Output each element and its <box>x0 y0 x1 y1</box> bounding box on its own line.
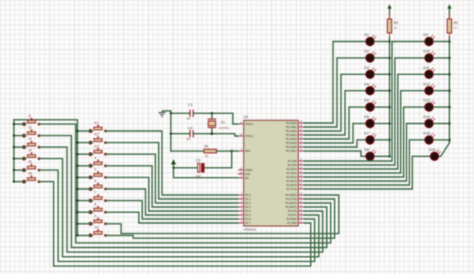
LED D13 <box>404 99 436 112</box>
wire D6 cathode <box>374 123 389 125</box>
LED D4 <box>345 82 376 95</box>
wire D15 cathode <box>433 139 449 141</box>
svg-text:15: 15 <box>28 160 32 164</box>
svg-text:PSEN: PSEN <box>245 168 252 172</box>
crystal X1 <box>208 113 230 133</box>
wire bus to button K7 <box>76 199 92 201</box>
push button 16 <box>22 172 40 184</box>
wire D12 cathode <box>433 90 449 92</box>
wire P0.3 to D4 <box>304 91 345 135</box>
LED D7 <box>357 132 376 145</box>
LED D10 <box>395 50 435 63</box>
wire bus to button 14 <box>13 157 26 159</box>
LED D6 <box>353 115 376 128</box>
svg-text:K2: K2 <box>95 133 99 137</box>
LED D14 <box>407 115 436 128</box>
capacitor C1 30p <box>186 103 193 121</box>
svg-text:D14: D14 <box>423 115 430 119</box>
svg-text:K1: K1 <box>95 121 99 125</box>
wire C2 left <box>170 133 190 135</box>
svg-text:13: 13 <box>28 137 32 141</box>
wire VCC to EA <box>174 168 239 178</box>
svg-text:30p: 30p <box>186 118 191 121</box>
push button 13 <box>22 137 40 149</box>
svg-text:8: 8 <box>95 202 97 206</box>
wire P2.6 to D15 <box>304 140 409 185</box>
wire button K10 to P3.1 <box>106 199 335 238</box>
wire bus top link <box>14 120 78 131</box>
wire bus to button 12 <box>13 134 26 136</box>
wire button 11 to P3.5 <box>39 124 331 243</box>
wire button K4 to P1.3 <box>106 166 239 207</box>
svg-text:P2.0/A8: P2.0/A8 <box>288 159 298 163</box>
wire left LED bus <box>388 40 391 157</box>
wire D11 cathode <box>433 73 449 75</box>
svg-text:P3.2/INT0: P3.2/INT0 <box>285 201 297 205</box>
wire button 14 to P3.2 <box>39 159 319 257</box>
wire bus to button 15 <box>13 169 26 171</box>
push button K5 <box>89 168 107 180</box>
svg-text:C2: C2 <box>188 127 193 131</box>
wire D5 cathode <box>374 106 389 108</box>
svg-text:D16: D16 <box>429 148 436 152</box>
push button K3 <box>89 144 107 156</box>
svg-text:P2.3/A11: P2.3/A11 <box>287 171 298 175</box>
wire right button bus <box>76 131 78 235</box>
svg-text:P2.2/A10: P2.2/A10 <box>286 167 297 171</box>
wire C1 left <box>170 112 190 114</box>
svg-text:D4: D4 <box>364 82 369 86</box>
svg-text:D3: D3 <box>364 66 369 70</box>
wire ground bus <box>170 111 172 151</box>
wire D1 cathode <box>374 41 389 43</box>
push button K7 <box>89 191 107 203</box>
wire bus to button 11 <box>13 123 26 125</box>
svg-text:R1: R1 <box>204 145 209 149</box>
svg-text:P1.2: P1.2 <box>245 201 251 205</box>
wire bus to button K5 <box>76 176 92 178</box>
svg-text:P1.7: P1.7 <box>245 221 251 225</box>
wire RST node down to C3 <box>204 151 232 168</box>
LED D3 <box>341 66 376 79</box>
wire P2.4 to D13 <box>304 107 403 177</box>
push button K6 <box>89 179 107 191</box>
svg-text:D7: D7 <box>364 132 369 136</box>
svg-text:D1: D1 <box>364 33 369 37</box>
wire bus to button K2 <box>76 141 92 143</box>
wire button K5 to P1.4 <box>106 177 239 211</box>
power VCC arrow (right LED column) <box>448 5 452 20</box>
wire R1 to RST <box>217 150 239 153</box>
svg-text:P0.6/AD6: P0.6/AD6 <box>286 145 297 149</box>
svg-text:D8: D8 <box>364 148 369 152</box>
svg-text:D13: D13 <box>423 99 430 103</box>
svg-text:U1: U1 <box>243 114 249 119</box>
svg-text:D6: D6 <box>364 115 369 119</box>
wire P2.1 to D10 <box>304 58 395 165</box>
svg-text:P0.7/AD7: P0.7/AD7 <box>286 149 297 153</box>
wire P0.2 to D3 <box>304 74 341 131</box>
label AT89C51 <box>243 228 256 232</box>
wire D16 cathode <box>439 155 441 157</box>
wire bus to button K1 <box>76 130 92 132</box>
svg-text:P2.7/A15: P2.7/A15 <box>286 187 297 191</box>
svg-text:7: 7 <box>95 191 97 195</box>
wire bus to button K10 <box>76 234 92 236</box>
wire D4 cathode <box>374 90 389 92</box>
wire P0.0 to D1 <box>304 42 333 124</box>
svg-text:9: 9 <box>95 214 97 218</box>
svg-text:5: 5 <box>95 168 97 172</box>
wire left button bus <box>13 120 15 182</box>
svg-text:14: 14 <box>28 149 32 153</box>
wire bus to button K8 <box>76 211 92 213</box>
wire D10 cathode <box>433 57 449 59</box>
wire P2.5 to D14 <box>304 124 406 182</box>
svg-text:P0.5/AD5: P0.5/AD5 <box>286 141 297 145</box>
svg-text:D10: D10 <box>423 50 430 54</box>
LED D9 <box>392 33 435 46</box>
wire diagonal to D16 <box>441 143 450 156</box>
IC U1 AT89C51 microcontroller <box>238 120 304 226</box>
svg-text:D11: D11 <box>423 66 430 70</box>
svg-text:P0.4/AD4: P0.4/AD4 <box>286 137 297 141</box>
label U1 <box>243 114 249 119</box>
svg-text:XTAL2: XTAL2 <box>245 134 254 138</box>
wire R1 left <box>171 150 204 152</box>
wire bus to button K6 <box>76 188 92 190</box>
svg-text:K3: K3 <box>95 144 99 148</box>
LED D1 <box>333 33 376 46</box>
wire D13 cathode <box>433 106 449 108</box>
svg-text:P2.5/A13: P2.5/A13 <box>286 179 297 183</box>
wire button 12 to P3.4 <box>39 136 327 248</box>
wire button K2 to P1.1 <box>106 143 239 199</box>
wire button K1 to P1.0 <box>106 131 239 195</box>
svg-text:P0.3/AD3: P0.3/AD3 <box>286 133 297 137</box>
svg-text:30p: 30p <box>186 138 191 141</box>
svg-text:P1.6: P1.6 <box>245 217 251 221</box>
wire button K8 to P1.7 <box>106 212 239 223</box>
svg-text:P2.6/A14: P2.6/A14 <box>286 183 297 187</box>
wire P0.1 to D2 <box>304 58 337 127</box>
svg-text:P3.5/T1: P3.5/T1 <box>288 213 298 217</box>
wire D9 cathode <box>433 41 449 43</box>
svg-text:RST: RST <box>245 149 251 153</box>
wire button K6 to P1.5 <box>106 189 239 215</box>
svg-text:D5: D5 <box>364 99 369 103</box>
svg-text:D2: D2 <box>364 50 369 54</box>
svg-text:P3.7/RD: P3.7/RD <box>287 221 297 225</box>
wire right LED bus <box>448 40 451 143</box>
svg-text:P3.4/T0: P3.4/T0 <box>288 209 298 213</box>
wire P2.7 to D16 <box>304 156 412 189</box>
wire button K9 to P3.0 <box>106 195 339 234</box>
svg-text:P3.0/RXD: P3.0/RXD <box>285 193 296 197</box>
wire bus to button K9 <box>76 223 92 225</box>
wire P2.0 to D9 <box>304 42 392 162</box>
svg-text:P2.4/A12: P2.4/A12 <box>286 175 297 179</box>
LED D15 <box>409 132 435 145</box>
LED D5 <box>349 99 376 112</box>
wire D8 cathode <box>374 155 389 157</box>
wire P2.2 to D11 <box>304 74 398 169</box>
svg-text:EA: EA <box>245 176 249 180</box>
push button 14 <box>22 149 40 161</box>
LED D2 <box>337 50 376 63</box>
wire button 13 to P3.3 <box>39 147 323 252</box>
resistor R1 10k <box>204 145 217 158</box>
wire button K7 to P1.6 <box>106 201 239 219</box>
wire C2 to XTAL2 <box>193 132 238 136</box>
LED D8 <box>361 148 376 161</box>
wire button K3 to P1.2 <box>106 154 239 203</box>
wire button 16 to P3.0 <box>39 182 311 267</box>
push button 11 <box>22 114 40 126</box>
push button 15 <box>22 160 40 172</box>
wire D7 cathode <box>374 139 389 141</box>
wire D3 cathode <box>374 73 389 75</box>
wire bus to button 13 <box>13 146 26 148</box>
svg-text:R2: R2 <box>454 21 458 25</box>
wire bus to button 16 <box>13 180 26 182</box>
svg-text:XTAL1: XTAL1 <box>245 122 254 126</box>
svg-text:P0.0/AD0: P0.0/AD0 <box>286 121 297 125</box>
svg-text:11: 11 <box>28 114 32 118</box>
svg-text:16: 16 <box>28 172 32 176</box>
wire C1 to XTAL1 <box>193 112 238 124</box>
capacitor C3 10uF <box>174 159 205 178</box>
svg-text:P0.1/AD1: P0.1/AD1 <box>286 125 297 129</box>
svg-text:P1.0: P1.0 <box>245 193 251 197</box>
wire P0.6 to D7 <box>304 140 357 147</box>
svg-text:P1.3: P1.3 <box>245 205 251 209</box>
svg-text:X1: X1 <box>221 121 225 125</box>
wire P0.5 to D6 <box>304 124 353 144</box>
LED D11 <box>398 66 435 79</box>
svg-text:D12: D12 <box>423 82 430 86</box>
svg-text:6: 6 <box>95 179 97 183</box>
svg-text:P3.6/WR: P3.6/WR <box>287 217 297 221</box>
svg-text:R3: R3 <box>394 21 398 25</box>
power VCC arrow (left LED column) <box>388 5 392 20</box>
svg-text:D9: D9 <box>423 33 428 37</box>
wire D14 cathode <box>433 123 449 125</box>
svg-text:ALE: ALE <box>245 172 250 176</box>
push button K9 <box>89 214 107 226</box>
svg-text:AT89C51: AT89C51 <box>243 228 256 232</box>
ground symbol <box>158 111 170 117</box>
svg-text:C3: C3 <box>196 159 201 163</box>
LED D16 <box>412 148 440 161</box>
wire P2.3 to D12 <box>304 91 400 173</box>
wire bus to button K3 <box>76 153 92 155</box>
svg-text:P1.4: P1.4 <box>245 209 251 213</box>
push button K10 <box>89 226 107 238</box>
push button K8 <box>89 202 107 214</box>
push button 12 <box>22 126 40 138</box>
resistor R2 200 <box>447 15 458 42</box>
push button K4 <box>89 156 107 168</box>
LED D12 <box>401 82 436 95</box>
capacitor C2 30p <box>186 127 193 141</box>
wire button 15 to P3.1 <box>39 170 315 261</box>
wire D2 cathode <box>374 57 389 59</box>
resistor R3 200 <box>387 15 398 42</box>
svg-text:CRYSTAL: CRYSTAL <box>219 127 230 130</box>
svg-text:4: 4 <box>95 156 97 160</box>
push button K1 <box>89 121 107 133</box>
push button K2 <box>89 133 107 145</box>
svg-text:P1.1: P1.1 <box>245 197 251 201</box>
svg-text:P3.3/INT1: P3.3/INT1 <box>285 205 297 209</box>
power VCC arrow (reset) <box>171 159 176 169</box>
svg-text:P0.2/AD2: P0.2/AD2 <box>286 129 297 133</box>
svg-text:P3.1/TXD: P3.1/TXD <box>286 197 297 201</box>
svg-text:P2.1/A9: P2.1/A9 <box>288 163 298 167</box>
svg-text:12: 12 <box>28 126 32 130</box>
svg-text:D15: D15 <box>423 132 430 136</box>
svg-text:C1: C1 <box>188 103 193 107</box>
wire bus to button K4 <box>76 165 92 167</box>
wire P0.7 to D8 <box>304 151 361 156</box>
svg-text:10: 10 <box>95 226 99 230</box>
svg-text:P1.5: P1.5 <box>245 213 251 217</box>
wire P0.4 to D5 <box>304 107 349 139</box>
